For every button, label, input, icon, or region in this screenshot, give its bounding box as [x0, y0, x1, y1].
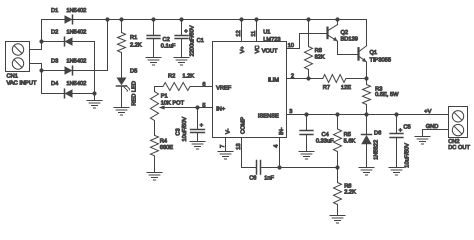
svg-text:D3: D3 — [51, 59, 58, 65]
wire Q1 collector to rail — [366, 20, 368, 46]
svg-text:10uF/50V: 10uF/50V — [403, 143, 410, 168]
wire ISENSE pin 3 / output row — [287, 114, 449, 116]
svg-text:D4: D4 — [51, 81, 58, 87]
svg-text:1N5402: 1N5402 — [66, 8, 86, 14]
svg-text:D5: D5 — [130, 69, 137, 75]
wire CN1 pin1 to bridge — [30, 49, 42, 51]
wire top rail (unregulated positive) — [42, 19, 367, 21]
ground (D5) — [114, 108, 129, 116]
svg-text:C1: C1 — [197, 38, 204, 44]
svg-text:DC OUT: DC OUT — [448, 145, 470, 151]
junction Q1 emitter / R7 / R3 — [364, 76, 368, 80]
svg-text:IN-: IN- — [279, 127, 285, 135]
capacitor C2 — [147, 20, 160, 58]
svg-text:10uF/50V: 10uF/50V — [181, 117, 188, 142]
svg-text:0.33uF: 0.33uF — [316, 138, 334, 144]
svg-text:11: 11 — [251, 31, 257, 37]
resistor R8 — [305, 20, 313, 79]
junction pin12 on rail — [239, 17, 243, 21]
wire D3 row — [42, 70, 108, 72]
svg-text:VAC INPUT: VAC INPUT — [7, 81, 37, 87]
svg-text:R1: R1 — [130, 35, 137, 41]
svg-text:12: 12 — [236, 30, 242, 36]
junction C5 — [394, 112, 398, 116]
capacitor C6 — [257, 161, 280, 175]
capacitor C4 — [300, 115, 313, 152]
wire Q1 emitter down — [366, 62, 368, 79]
junction C1 on rail — [179, 17, 183, 21]
svg-text:2: 2 — [291, 73, 294, 79]
svg-text:P1: P1 — [161, 94, 168, 100]
ground (R6) — [330, 216, 345, 224]
wire LED cathode to ground — [121, 86, 123, 108]
svg-text:1nF: 1nF — [264, 176, 274, 182]
wire D3 cathode up to rail — [107, 20, 109, 71]
pin 13 lead and wire to C6 — [242, 138, 257, 168]
ground (C5) — [389, 168, 404, 176]
svg-text:6: 6 — [202, 82, 205, 88]
diode D4 — [65, 89, 73, 98]
pin 11 lead — [256, 20, 258, 42]
svg-text:C5: C5 — [403, 125, 410, 131]
wire Q2 emitter to Q1 base — [338, 41, 358, 54]
diode D1 — [65, 15, 73, 24]
transistor Q1 TIP3055 — [359, 46, 367, 62]
wire D2 row — [42, 41, 95, 43]
svg-text:680E: 680E — [160, 145, 173, 151]
junction R8 bottom on ILIM row — [306, 76, 310, 80]
junction C6 / IN- node — [277, 165, 281, 169]
junction C3 tap on wiper wire — [195, 105, 199, 109]
P1 wiper arrow — [159, 105, 198, 109]
wire Q2 collector to rail — [337, 20, 339, 25]
ground (C4) — [299, 152, 314, 160]
regulator U1 LM723 box — [213, 42, 287, 138]
svg-text:IN+: IN+ — [216, 106, 226, 112]
junction AC1 / D2 cathode — [39, 39, 43, 43]
ground (pin 7, V-) — [218, 152, 233, 160]
svg-text:VC: VC — [255, 45, 261, 53]
svg-text:1N5822: 1N5822 — [374, 140, 380, 160]
svg-text:CN2: CN2 — [448, 139, 459, 145]
ground (R4) — [147, 173, 162, 181]
wire IN- node to feedback divider — [280, 167, 338, 169]
svg-text:BD139: BD139 — [341, 36, 358, 42]
svg-text:1.2K: 1.2K — [182, 74, 194, 80]
svg-text:1N5402: 1N5402 — [66, 59, 86, 65]
svg-text:ISENSE: ISENSE — [258, 114, 279, 120]
ground (D6) — [359, 168, 374, 176]
wire CN1 pin2 to bridge — [30, 63, 42, 65]
svg-text:3: 3 — [289, 109, 292, 115]
svg-text:4: 4 — [273, 145, 279, 148]
svg-text:RED LED: RED LED — [131, 81, 137, 106]
svg-text:R5: R5 — [344, 132, 351, 138]
junction R1 on rail — [119, 17, 123, 21]
junction at D4 row — [92, 91, 96, 95]
svg-text:1N5402: 1N5402 — [66, 30, 86, 36]
svg-text:C3: C3 — [176, 128, 182, 135]
capacitor C1 electrolytic — [175, 20, 188, 58]
junction R5 top — [335, 112, 339, 116]
svg-text:2200uF/50V: 2200uF/50V — [189, 25, 196, 56]
wire AC2 vertical — [41, 64, 43, 94]
potentiometer P1 element — [151, 87, 159, 136]
svg-text:R7: R7 — [323, 85, 330, 91]
svg-text:10: 10 — [288, 43, 294, 49]
diode D2 — [65, 37, 73, 46]
ground (C1) — [174, 58, 189, 66]
svg-text:10K POT: 10K POT — [161, 101, 185, 107]
svg-text:C6: C6 — [249, 176, 256, 182]
resistor R4 — [151, 135, 159, 172]
pin 7 lead — [225, 138, 227, 152]
svg-text:V+: V+ — [240, 46, 246, 54]
junction Q2 collector on rail — [335, 17, 339, 21]
wire AC1 vertical to D1 anode — [41, 20, 43, 50]
svg-text:TIP3055: TIP3055 — [370, 57, 392, 63]
connector CN1 (screw terminal VAC input) — [6, 42, 30, 72]
svg-text:VOUT: VOUT — [262, 48, 278, 54]
svg-text:CN1: CN1 — [7, 74, 18, 80]
svg-text:D6: D6 — [374, 131, 381, 137]
svg-text:R4: R4 — [160, 138, 167, 144]
svg-text:+: + — [184, 29, 188, 35]
svg-text:0.5E, 5W: 0.5E, 5W — [375, 92, 399, 98]
svg-text:+V: +V — [424, 109, 431, 115]
svg-text:13: 13 — [236, 143, 242, 149]
svg-text:2.2K: 2.2K — [344, 189, 356, 195]
svg-text:GND: GND — [426, 124, 439, 130]
resistor R1 — [118, 20, 126, 79]
svg-text:R8: R8 — [315, 48, 322, 54]
resistor R5 — [334, 115, 342, 168]
LED D5 — [117, 78, 131, 92]
svg-text:U1: U1 — [263, 30, 270, 36]
connector CN2 (screw terminal DC output) — [449, 107, 468, 138]
svg-text:C4: C4 — [322, 132, 329, 138]
junction C2 on rail — [151, 17, 155, 21]
svg-text:+: + — [200, 123, 204, 129]
wire GND row to CN2 — [423, 130, 449, 137]
svg-text:Q2: Q2 — [341, 30, 349, 36]
resistor R2 row (pot top to VREF pin 6) — [155, 83, 213, 91]
diode D3 — [65, 66, 73, 75]
junction R3 / D6 — [364, 112, 368, 116]
ground (output GND) — [415, 137, 430, 145]
pin 12 lead — [241, 20, 243, 42]
diode D6 (output protection) — [361, 115, 372, 168]
svg-text:82K: 82K — [315, 55, 325, 61]
wire wiper to IN+ pin 5 — [198, 107, 213, 109]
svg-text:D1: D1 — [51, 8, 58, 14]
capacitor C5 electrolytic — [390, 115, 403, 168]
svg-text:VREF: VREF — [216, 85, 232, 91]
resistor R7 row (ILIM pin 2) — [287, 75, 367, 83]
svg-text:+: + — [399, 128, 403, 134]
ground (bridge negative) — [87, 101, 102, 109]
ground (C2) — [146, 58, 161, 66]
capacitor C3 electrolytic — [191, 108, 205, 142]
junction AC2 / D3 anode — [39, 68, 43, 72]
svg-text:LM723: LM723 — [263, 37, 280, 43]
ground (C3) — [190, 142, 205, 150]
wire D4 row — [42, 93, 95, 95]
wire VOUT pin 10 to Q2 base — [287, 34, 327, 49]
junction D3 column on rail — [105, 17, 109, 21]
junction R5/R6 divider — [335, 165, 339, 169]
resistor R6 — [334, 168, 342, 216]
svg-text:12E: 12E — [341, 85, 351, 91]
svg-text:D2: D2 — [51, 30, 58, 36]
svg-text:C2: C2 — [163, 37, 170, 43]
svg-text:V-: V- — [225, 129, 231, 134]
junction C4 — [304, 112, 308, 116]
junction R8 on rail — [306, 17, 310, 21]
svg-text:ILIM: ILIM — [268, 77, 279, 83]
transistor Q2 BD139 — [328, 25, 338, 42]
resistor R3 — [363, 79, 371, 115]
svg-text:R2: R2 — [168, 74, 175, 80]
svg-text:2.2K: 2.2K — [130, 42, 142, 48]
svg-text:5: 5 — [202, 103, 205, 109]
pin 4 lead — [279, 138, 281, 168]
svg-text:COMP: COMP — [240, 117, 246, 134]
svg-text:5.6K: 5.6K — [344, 138, 356, 144]
svg-text:1N5402: 1N5402 — [66, 81, 86, 87]
svg-text:7: 7 — [220, 145, 226, 148]
junction pin11 on rail — [254, 17, 258, 21]
wire bridge negative vertical — [94, 42, 96, 101]
svg-text:0.1uF: 0.1uF — [161, 44, 176, 50]
svg-text:Q1: Q1 — [370, 50, 378, 56]
